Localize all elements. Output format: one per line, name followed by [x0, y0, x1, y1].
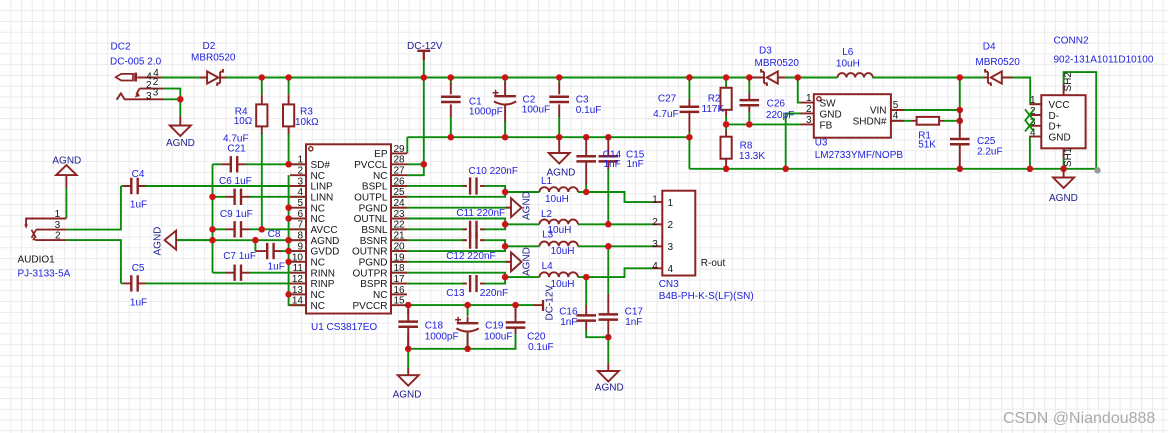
svg-text:DC-005 2.0: DC-005 2.0 — [110, 57, 162, 68]
wire RINN row C7 — [213, 272, 226, 274]
svg-text:29: 29 — [394, 144, 406, 155]
svg-text:U3: U3 — [815, 138, 828, 149]
wire R3 lead to SD# — [288, 78, 290, 95]
capacitor C11 — [463, 228, 485, 230]
svg-text:10uH: 10uH — [551, 246, 575, 257]
wire AGND row to pin8 — [176, 239, 306, 241]
svg-text:3: 3 — [668, 242, 674, 253]
svg-text:L1: L1 — [541, 176, 553, 187]
wire DC-12V net vertical to PVCCL — [423, 60, 425, 165]
capacitor C10 — [463, 185, 485, 187]
ground AGND below C16/C17 — [607, 363, 609, 371]
svg-text:LINP: LINP — [311, 182, 334, 193]
svg-text:1nF: 1nF — [625, 317, 642, 328]
svg-text:1: 1 — [55, 209, 61, 220]
svg-text:D-: D- — [1049, 111, 1060, 122]
svg-text:C11 220nF: C11 220nF — [456, 208, 505, 219]
wire C16 upper lead from L4 node — [585, 277, 587, 305]
wire BSNL row after C11 — [306, 228, 466, 230]
svg-text:C5: C5 — [132, 263, 145, 274]
svg-text:D4: D4 — [983, 42, 996, 53]
capacitor C21 — [222, 163, 247, 165]
capacitor C12 — [463, 239, 485, 241]
svg-text:1: 1 — [806, 93, 812, 104]
svg-text:CONN2: CONN2 — [1054, 36, 1089, 47]
svg-text:1000pF: 1000pF — [469, 107, 503, 118]
junction dots mid AGND rail — [448, 134, 455, 141]
svg-text:51K: 51K — [918, 140, 936, 151]
svg-text:BSPR: BSPR — [360, 279, 387, 290]
svg-text:PGND: PGND — [359, 203, 388, 214]
svg-text:NC: NC — [311, 203, 325, 214]
capacitor C8 — [255, 250, 281, 252]
svg-text:1000pF: 1000pF — [425, 332, 459, 343]
svg-text:L4: L4 — [542, 261, 554, 272]
svg-text:18: 18 — [394, 263, 406, 274]
svg-text:L2: L2 — [541, 209, 553, 220]
svg-text:3: 3 — [806, 115, 812, 126]
connector AUDIO1 jack symbol — [26, 219, 66, 226]
capacitor C26 — [748, 93, 750, 112]
svg-text:SW: SW — [820, 99, 837, 110]
svg-text:7: 7 — [297, 220, 303, 231]
svg-text:C4: C4 — [132, 169, 145, 180]
svg-text:4: 4 — [668, 264, 674, 275]
wire C4 row LINP — [121, 185, 124, 187]
gray dangling-end dot — [1094, 167, 1100, 173]
svg-text:24: 24 — [394, 198, 406, 209]
wire C17 upper lead from L3 node — [607, 246, 609, 294]
svg-text:D3: D3 — [759, 46, 772, 57]
svg-text:1: 1 — [297, 155, 303, 166]
svg-text:1uF: 1uF — [268, 262, 285, 273]
ground AGND below C18 — [407, 368, 409, 375]
wire mid rail down to bottom rail — [688, 137, 690, 169]
capacitor C5 — [124, 282, 146, 284]
svg-text:CN3: CN3 — [659, 279, 679, 290]
CONN2 SH2 stub — [1063, 84, 1065, 95]
junction dot C16/C17 gnd — [605, 334, 612, 341]
svg-text:BSPL: BSPL — [362, 182, 388, 193]
svg-text:C19: C19 — [485, 321, 504, 332]
ground AGND at audio tip — [56, 165, 77, 175]
svg-text:1uF: 1uF — [130, 298, 147, 309]
wire bottom power-gnd rail — [689, 72, 1096, 169]
junction dots bottom rail — [723, 166, 730, 173]
capacitor C1 — [450, 83, 452, 117]
svg-text:23: 23 — [394, 209, 406, 220]
capacitor C3 — [558, 83, 560, 117]
svg-text:RINP: RINP — [311, 279, 335, 290]
diode D2 — [200, 77, 226, 79]
capacitor C27 — [688, 99, 690, 132]
svg-text:RINN: RINN — [311, 268, 335, 279]
svg-text:C7 1uF: C7 1uF — [223, 251, 256, 262]
svg-text:1uF: 1uF — [130, 200, 147, 211]
ground AGND at CONN2 — [1063, 169, 1065, 178]
svg-text:AUDIO1: AUDIO1 — [18, 255, 56, 266]
no-connect X marks — [1025, 109, 1034, 120]
svg-text:20: 20 — [394, 241, 406, 252]
wire CONN2 GND to bottom rail — [1030, 137, 1041, 169]
svg-text:C25: C25 — [977, 136, 996, 147]
wire AVCC row C9 — [213, 228, 226, 230]
svg-text:C6 1uF: C6 1uF — [219, 176, 252, 187]
wire C3 stem — [558, 78, 560, 85]
svg-text:10: 10 — [292, 252, 304, 263]
wire C5 row RINP — [121, 282, 124, 284]
inductor L6 — [838, 73, 873, 77]
svg-text:10kΩ: 10kΩ — [295, 117, 319, 128]
wire jack pin3 to C4 — [66, 186, 121, 230]
svg-text:10uH: 10uH — [545, 194, 569, 205]
junction dots NC bus — [285, 204, 292, 211]
svg-text:16: 16 — [394, 285, 406, 296]
svg-text:FB: FB — [820, 120, 833, 131]
wire L2 row — [505, 223, 539, 225]
wire +12V top rail — [161, 77, 200, 79]
svg-text:15: 15 — [394, 296, 406, 307]
ground AGND arrow pin24 — [506, 207, 512, 209]
diode D4 — [984, 77, 1013, 79]
wire L3 row — [505, 245, 539, 247]
junction dots lower AGND row — [405, 346, 412, 353]
svg-text:2: 2 — [668, 220, 674, 231]
svg-text:NC: NC — [311, 301, 325, 312]
svg-text:C8: C8 — [268, 229, 281, 240]
wire C21 row SD# — [213, 163, 222, 165]
svg-text:C18: C18 — [425, 321, 444, 332]
CN3 pin stubs — [653, 202, 663, 268]
svg-text:4: 4 — [893, 111, 899, 122]
svg-text:13.3K: 13.3K — [739, 151, 765, 162]
svg-text:902-131A1011D10100: 902-131A1011D10100 — [1054, 55, 1154, 66]
wire EP pin to mid AGND rail — [406, 137, 408, 153]
ground AGND arrow at audio — [165, 231, 177, 250]
wire NC bus vertical (pins 2,5,6,9,10,13,14) — [289, 175, 306, 305]
resistor R4 — [261, 94, 263, 134]
wire DC2 pin2 bend — [164, 89, 181, 100]
capacitor C7 — [226, 272, 251, 274]
svg-text:MBR0520: MBR0520 — [975, 57, 1020, 68]
wire jack pin2 to C5 — [66, 240, 121, 283]
svg-text:C27: C27 — [658, 94, 677, 105]
svg-text:C12 220nF: C12 220nF — [446, 251, 495, 262]
svg-text:PGND: PGND — [359, 258, 388, 269]
svg-text:25: 25 — [394, 187, 406, 198]
wire DC2 pin3 to AGND — [164, 99, 181, 116]
connector CONN2 body — [1041, 95, 1085, 148]
ground AGND below DC2 jack — [179, 116, 181, 126]
junction dots PVCCR row — [405, 302, 412, 309]
wire VIN row — [891, 109, 960, 111]
wire L4 row — [505, 276, 539, 278]
capacitor C15 — [607, 137, 609, 169]
svg-text:AGND: AGND — [166, 138, 195, 149]
svg-text:D+: D+ — [1049, 122, 1062, 133]
svg-text:SH2: SH2 — [1063, 72, 1074, 92]
regulator U3 body — [814, 94, 891, 138]
junction dots L rows — [502, 189, 509, 196]
svg-text:22: 22 — [394, 220, 406, 231]
wire AGND arrow to bus — [176, 239, 212, 241]
svg-text:C21: C21 — [227, 144, 246, 155]
svg-text:BSNR: BSNR — [360, 236, 388, 247]
svg-text:C3: C3 — [576, 94, 589, 105]
resistor R1 — [912, 120, 945, 122]
svg-text:SH1: SH1 — [1063, 147, 1074, 167]
svg-text:1nF: 1nF — [604, 159, 621, 170]
wire R4 lead to AVCC bus — [261, 78, 263, 95]
svg-text:AGND: AGND — [522, 191, 533, 220]
svg-text:2: 2 — [297, 166, 303, 177]
ground AGND arrow pin19 — [506, 261, 512, 263]
junction dots FB row — [723, 121, 730, 128]
svg-text:4: 4 — [297, 187, 303, 198]
U1 right pin stubs — [391, 153, 407, 305]
svg-text:OUTPR: OUTPR — [353, 268, 388, 279]
svg-text:C10 220nF: C10 220nF — [469, 166, 518, 177]
capacitor C18 — [407, 309, 409, 349]
wire lower AGND row under C18-C20 — [407, 334, 409, 349]
svg-text:220pF: 220pF — [766, 110, 794, 121]
wire +12V rail from D4 to CONN2 VCC pin — [1012, 78, 1041, 105]
svg-text:2: 2 — [146, 80, 152, 91]
svg-text:2: 2 — [55, 231, 61, 242]
junction dots VIN/SHDN — [957, 107, 964, 114]
connector DC2 barrel jack symbol — [116, 74, 133, 81]
wire BSNR row after C12 — [306, 239, 466, 241]
wire LINN row C6 — [213, 196, 226, 198]
svg-text:U1 CS3817EO: U1 CS3817EO — [311, 322, 377, 333]
svg-text:2: 2 — [652, 217, 658, 228]
svg-text:C26: C26 — [767, 99, 786, 110]
resistor R8 — [725, 130, 727, 165]
svg-text:PVCCR: PVCCR — [352, 301, 387, 312]
svg-text:R2: R2 — [708, 94, 721, 105]
capacitor C13 — [463, 283, 485, 285]
svg-text:AGND: AGND — [1049, 193, 1078, 204]
svg-text:5: 5 — [893, 100, 899, 111]
svg-text:6: 6 — [297, 209, 303, 220]
resistor R2 — [725, 87, 727, 116]
inductor L1 — [540, 187, 578, 192]
capacitor C19 polarized — [467, 317, 469, 349]
svg-text:R3: R3 — [300, 107, 313, 118]
svg-text:0.1uF: 0.1uF — [528, 342, 554, 353]
wire AGND stem below C18 row — [407, 349, 409, 368]
svg-text:B4B-PH-K-S(LF)(SN): B4B-PH-K-S(LF)(SN) — [659, 291, 754, 302]
junction dot C8 branch — [252, 237, 259, 244]
junction dot DC2 jack — [177, 96, 184, 103]
svg-text:VCC: VCC — [1049, 100, 1070, 111]
capacitor C4 — [124, 185, 146, 187]
wire SH1 to bottom rail — [1063, 158, 1065, 169]
capacitor C17 — [607, 294, 609, 337]
op-amp class-D IC U1 body — [306, 144, 391, 313]
junction dots AGND bus — [209, 194, 216, 201]
svg-text:NC: NC — [373, 290, 387, 301]
junction dot AVCC bus — [259, 226, 266, 233]
svg-text:19: 19 — [394, 252, 406, 263]
svg-text:GND: GND — [820, 109, 842, 120]
svg-text:4.7uF: 4.7uF — [653, 109, 679, 120]
svg-text:AGND: AGND — [393, 389, 422, 400]
wire BSPL row after C10 — [306, 185, 466, 187]
capacitor C14 — [585, 137, 587, 184]
U3 pin stubs — [801, 103, 905, 125]
svg-text:C20: C20 — [527, 332, 546, 343]
svg-text:C13: C13 — [446, 288, 465, 299]
svg-text:EP: EP — [374, 149, 388, 160]
resistor R3 — [288, 94, 290, 134]
svg-text:4: 4 — [652, 261, 658, 272]
svg-text:L6: L6 — [842, 47, 854, 58]
svg-text:13: 13 — [292, 285, 304, 296]
wire L1 row — [505, 191, 539, 193]
wire R2 bus — [725, 78, 727, 88]
svg-text:D2: D2 — [203, 41, 216, 52]
svg-text:1: 1 — [652, 195, 658, 206]
svg-text:28: 28 — [394, 155, 406, 166]
wire C16/C17 bottom to AGND — [586, 330, 608, 337]
svg-text:NC: NC — [311, 214, 325, 225]
svg-text:1: 1 — [668, 198, 674, 209]
wire C8 branch — [254, 240, 256, 251]
svg-text:3: 3 — [153, 88, 159, 99]
svg-text:DC-12V: DC-12V — [545, 285, 556, 321]
ground AGND below C3 — [558, 137, 560, 153]
svg-text:C16: C16 — [559, 307, 578, 318]
svg-text:L3: L3 — [542, 230, 554, 241]
svg-text:CSDN @Niandou888: CSDN @Niandou888 — [1003, 410, 1155, 427]
wire C14 lower lead to L1 node — [585, 185, 587, 193]
capacitor C6 — [226, 196, 251, 198]
svg-text:12: 12 — [292, 274, 304, 285]
inductor L2 — [540, 220, 578, 225]
svg-text:SHDN#: SHDN# — [853, 117, 887, 128]
svg-text:1nF: 1nF — [560, 317, 577, 328]
svg-text:NC: NC — [311, 258, 325, 269]
diode D3 — [751, 77, 785, 79]
wire C1 stem — [450, 78, 452, 85]
wire SHDN row — [891, 120, 912, 122]
capacitor C2 polarized — [504, 82, 506, 122]
wire OUTPL jog — [306, 192, 505, 197]
svg-text:OUTNR: OUTNR — [352, 247, 388, 258]
svg-text:AGND: AGND — [311, 236, 340, 247]
svg-text:PVCCL: PVCCL — [354, 160, 388, 171]
capacitor C25 — [959, 110, 961, 169]
svg-text:BSNL: BSNL — [361, 225, 388, 236]
svg-text:R8: R8 — [740, 141, 753, 152]
wire AGND bus vertical left — [212, 164, 214, 272]
U1 left pin stubs — [290, 164, 306, 305]
connector CN3 body — [662, 191, 695, 276]
power label DC-12V at PVCCR — [542, 300, 544, 311]
svg-text:C9 1uF: C9 1uF — [220, 209, 253, 220]
svg-text:AGND: AGND — [595, 383, 624, 394]
wire C26 stem — [748, 78, 750, 94]
junction dot PVCCL — [421, 161, 428, 168]
svg-text:117K: 117K — [702, 104, 725, 115]
svg-text:C17: C17 — [625, 307, 644, 318]
wire PGND pin19 to AGND arrow — [306, 261, 511, 263]
svg-text:LINN: LINN — [311, 193, 334, 204]
svg-text:OUTPL: OUTPL — [354, 193, 388, 204]
svg-text:NC: NC — [373, 171, 387, 182]
svg-text:100uF: 100uF — [522, 104, 550, 115]
svg-text:11: 11 — [293, 263, 304, 274]
svg-text:NC: NC — [311, 171, 325, 182]
svg-text:8: 8 — [297, 231, 303, 242]
svg-text:GND: GND — [1049, 132, 1071, 143]
svg-text:DC2: DC2 — [111, 42, 131, 53]
wire jack tip to AGND symbol — [65, 187, 67, 218]
svg-text:VIN: VIN — [870, 106, 887, 117]
svg-text:LM2733YMF/NOPB: LM2733YMF/NOPB — [815, 150, 904, 161]
wire OUTNR jog — [306, 246, 505, 251]
svg-text:AVCC: AVCC — [311, 225, 338, 236]
CONN2 pin stubs — [1030, 104, 1041, 136]
svg-text:100uF: 100uF — [484, 332, 512, 343]
wire BSPR row after C13 — [306, 283, 466, 285]
wire C15 lower lead to L2 node — [607, 168, 609, 224]
wire NC pin27 to PVCCL junction — [407, 164, 424, 175]
wire OUTNL jog — [306, 219, 505, 225]
svg-text:3: 3 — [146, 91, 152, 102]
wire C2 stem — [504, 78, 506, 84]
svg-text:21: 21 — [394, 231, 406, 242]
svg-text:PJ-3133-5A: PJ-3133-5A — [18, 269, 71, 280]
wire C18 C19 C20 top leads — [407, 305, 409, 315]
wire FB row — [726, 123, 800, 125]
wire OUTPR jog — [306, 273, 505, 277]
wire L6 node down to VIN — [959, 78, 961, 111]
svg-text:9: 9 — [297, 241, 303, 252]
svg-text:OUTNL: OUTNL — [354, 214, 388, 225]
svg-text:AGND: AGND — [52, 155, 81, 166]
svg-text:220nF: 220nF — [480, 288, 508, 299]
svg-text:1nF: 1nF — [627, 159, 644, 170]
wire PVCCL pin28 — [407, 163, 424, 165]
svg-text:5: 5 — [297, 198, 303, 209]
svg-text:3: 3 — [297, 176, 303, 187]
svg-text:NC: NC — [311, 290, 325, 301]
svg-text:MBR0520: MBR0520 — [191, 53, 236, 64]
wire PGND pin24 to AGND arrow — [306, 207, 511, 209]
wire U3 GND to bottom rail — [786, 113, 801, 168]
svg-text:MBR0520: MBR0520 — [755, 58, 800, 69]
svg-text:10Ω: 10Ω — [234, 116, 253, 127]
svg-text:14: 14 — [292, 296, 304, 307]
svg-text:SD#: SD# — [311, 160, 331, 171]
svg-text:2.2uF: 2.2uF — [977, 147, 1003, 158]
svg-text:AGND: AGND — [153, 227, 164, 256]
svg-text:17: 17 — [394, 274, 406, 285]
svg-text:R-out: R-out — [701, 258, 726, 269]
junction dots +12V rail — [259, 74, 266, 81]
svg-text:0.1uF: 0.1uF — [576, 105, 602, 116]
inductor L4 — [540, 272, 578, 277]
wire C27 stem — [688, 78, 690, 100]
svg-text:2: 2 — [806, 104, 812, 115]
wire SW pin to rail — [798, 78, 801, 103]
svg-text:1: 1 — [1030, 95, 1036, 106]
svg-text:3: 3 — [55, 220, 61, 231]
wire mid AGND rail — [407, 136, 689, 138]
svg-text:3: 3 — [652, 239, 658, 250]
